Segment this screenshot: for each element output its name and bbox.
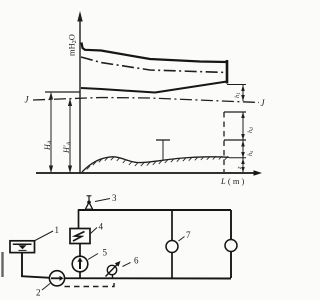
tank 1 (suction well) — [10, 241, 35, 253]
wire: bottom envelope line — [81, 82, 227, 93]
pump 2 (circle with horizontal arrow) — [49, 271, 64, 286]
wire: tick h1 top — [227, 84, 246, 86]
label 4 — [91, 228, 98, 234]
wire: tank riser — [21, 253, 23, 278]
check valve 5 (circle with up arrow) — [72, 256, 88, 272]
svg-text:L ( m ): L ( m ) — [220, 176, 245, 186]
wire: terrain ground profile — [82, 157, 229, 172]
svg-text:mH2O: mH2O — [67, 34, 79, 56]
node L axis baseline — [36, 172, 256, 174]
svg-text:HA: HA — [43, 140, 54, 151]
dimension h_d — [242, 112, 244, 140]
node axis mH2O vertical — [79, 18, 81, 173]
wire: dashed bypass line — [65, 279, 115, 287]
svg-text:H′A: H′A — [62, 141, 73, 154]
wire: middle dash-dot steady grade line — [81, 57, 227, 73]
svg-text:4: 4 — [99, 222, 104, 232]
label 1 — [35, 231, 53, 241]
wire: tick terrain level — [229, 157, 246, 159]
wire: dashed helper vertical — [223, 112, 225, 172]
label 2 — [42, 284, 50, 291]
dimension H'_A — [69, 99, 71, 172]
dimension h1 — [242, 85, 244, 101]
svg-text:2: 2 — [36, 288, 41, 298]
wire: riser segments at x=80 — [78, 210, 80, 230]
wire: bottom pipe — [21, 276, 231, 278]
label 7 — [179, 237, 185, 242]
svg-text:7: 7 — [186, 230, 191, 240]
wire: right edge pipe — [230, 210, 232, 278]
svg-text:5: 5 — [103, 248, 108, 258]
svg-text:3: 3 — [112, 193, 117, 203]
hydrant 7b — [225, 240, 237, 252]
svg-text:J: J — [25, 95, 30, 105]
dimension z — [242, 158, 244, 172]
label 3 — [95, 199, 110, 202]
dimension h_s — [242, 140, 244, 158]
svg-text:6: 6 — [134, 256, 139, 266]
svg-text:h1: h1 — [234, 92, 242, 98]
label 5 — [88, 254, 98, 260]
valve 6 (cock with inclined arrow) — [107, 265, 116, 274]
wire: scan artifact left edge — [1, 252, 3, 277]
svg-text:J: J — [261, 98, 266, 108]
svg-text:hs: hs — [247, 151, 255, 156]
dimension H_A — [50, 93, 52, 172]
wire: middle vertical with hydrant 7 — [171, 210, 173, 278]
wire: right closing bar of envelope — [226, 60, 229, 84]
node J-J dash-dot line — [33, 98, 259, 103]
svg-text:z: z — [236, 166, 243, 170]
wire: tick box top — [224, 111, 246, 113]
wire: top envelope line — [82, 43, 228, 63]
device 4 (box with surge symbol) — [70, 229, 90, 244]
node T marker pole — [162, 140, 164, 160]
wire: reference level at pump — [45, 91, 80, 93]
hydrant 7a — [166, 241, 178, 253]
svg-text:1: 1 — [55, 225, 60, 235]
wire: top pipe — [78, 209, 231, 211]
air valve 3 — [85, 202, 92, 209]
wire: terrain hatching — [87, 156, 228, 169]
label 6 — [123, 263, 131, 267]
svg-text:hd: hd — [247, 127, 255, 133]
wire: tick box middle — [224, 139, 246, 141]
